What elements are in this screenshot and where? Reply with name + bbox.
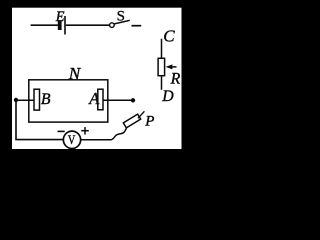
svg-text:S: S — [117, 8, 125, 24]
svg-text:R: R — [170, 71, 181, 88]
wire: battery left lead — [31, 24, 58, 26]
wire: left terminal to B — [16, 99, 33, 101]
wire: battery to switch — [66, 24, 110, 26]
wire: left terminal down to bottom — [16, 100, 63, 140]
box N — [29, 80, 108, 122]
svg-text:E: E — [55, 9, 65, 25]
svg-text:V: V — [68, 133, 75, 147]
switch S blade — [114, 20, 130, 24]
wire: voltmeter to probe (with squiggle) — [81, 128, 127, 140]
battery E long thin plate — [64, 16, 66, 35]
label + (voltmeter positive) — [81, 127, 89, 135]
arrow pointing at R — [166, 64, 177, 69]
wire: switch right stub — [132, 25, 142, 27]
svg-text:D: D — [161, 88, 174, 105]
junction dot: left terminal — [14, 98, 18, 102]
wire: C lead — [161, 39, 163, 59]
battery E short thick plate — [58, 21, 62, 31]
wire: R to D lead — [161, 76, 163, 90]
svg-text:B: B — [41, 91, 51, 108]
label - (voltmeter negative) — [58, 130, 65, 132]
resistor R body — [158, 58, 165, 75]
probe P tip — [138, 111, 144, 118]
svg-text:C: C — [163, 26, 175, 45]
wire: A to right terminal — [103, 99, 133, 101]
voltmeter V — [63, 131, 80, 148]
element A inside N — [98, 89, 103, 110]
svg-text:N: N — [68, 64, 82, 83]
element B inside N — [34, 89, 40, 110]
black surround — [0, 0, 193, 191]
junction dot: right terminal — [131, 98, 135, 102]
svg-text:A: A — [88, 89, 100, 108]
probe P body — [123, 114, 140, 128]
svg-text:P: P — [144, 113, 154, 129]
switch S pivot circle — [110, 23, 115, 28]
